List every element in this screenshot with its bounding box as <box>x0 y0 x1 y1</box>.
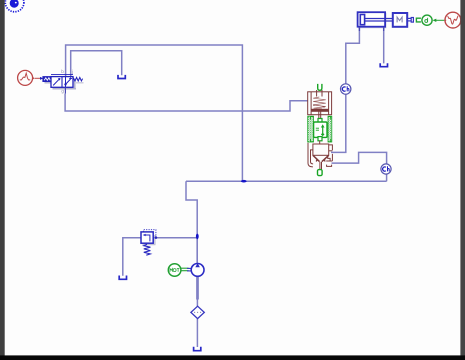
wire net7: relief valve left to tank T2 <box>123 238 141 276</box>
wire net8: pump outlet column stub <box>196 238 198 263</box>
window border bottom <box>0 355 465 360</box>
solenoid <box>43 77 51 82</box>
sensor arrow line <box>436 19 444 21</box>
window border left <box>0 0 5 356</box>
junction node at pump column <box>196 234 199 240</box>
junction node at supply line <box>241 180 247 183</box>
valve body <box>51 77 73 88</box>
top green port <box>318 84 322 90</box>
mass load M1 <box>393 13 414 27</box>
spool hatched walls (green) <box>308 116 314 142</box>
app icon (top-left) <box>5 0 24 12</box>
wire net2: valve port j to tank T3 <box>71 51 122 77</box>
wire net5: cylinder head-side port to tank T4 <box>383 27 385 63</box>
electric motor MOT1 (green) <box>168 264 191 277</box>
relief spring <box>144 244 151 255</box>
pump P1 <box>191 263 204 299</box>
wire net1: jog down to pump <box>186 181 197 263</box>
motor shaft <box>181 267 189 269</box>
piston <box>312 109 329 111</box>
wire net6: Ch2 down to supply line <box>386 174 388 181</box>
wire net3: valve port g pilot line to HCD <box>65 94 308 111</box>
tank T2 below relief valve <box>119 276 126 280</box>
svg-text:j: j <box>71 69 73 74</box>
valve right cell paths <box>65 77 67 87</box>
wire net1: long supply horizontal <box>186 180 387 182</box>
scope X1 (red) <box>444 12 460 28</box>
filter F1 (diamond) <box>191 306 204 318</box>
bottom green port <box>318 170 323 176</box>
control block (green) <box>318 119 322 123</box>
HCD counterbalance assembly U1 <box>308 84 333 176</box>
block arrow <box>322 127 324 134</box>
wire net4: cylinder rod-side port to chamber Ch1 <box>346 27 360 84</box>
window border right <box>460 0 465 356</box>
svg-text:b: b <box>61 69 64 74</box>
hydraulic cylinder A1 <box>358 12 393 31</box>
tank T3 on valve return <box>118 75 125 79</box>
wire net9: filter down to tank T1 <box>196 319 198 347</box>
poppet arrows <box>316 159 318 162</box>
wire net6: HCD lower right port to chamber Ch2 <box>332 152 387 163</box>
wire net1: valve port b up and right to junction column <box>66 45 243 181</box>
cylinder port stubs <box>358 27 360 31</box>
chamber Ch1 <box>341 84 351 94</box>
valve spring <box>73 77 83 81</box>
relief valve RV1 <box>141 230 157 256</box>
tank T4 on cylinder head side <box>380 63 387 66</box>
wire net4: Ch1 down to HCD upper right port <box>331 94 346 152</box>
directional valve V1 <box>43 69 84 94</box>
valve port g stub <box>64 87 66 93</box>
chamber Ch2 <box>381 164 391 174</box>
mass right connector <box>407 17 411 19</box>
pump inlet double line <box>196 277 198 300</box>
wire net7: relief valve right to pump column <box>153 237 197 239</box>
signal arrowhead into solenoid <box>40 77 43 80</box>
poppet assembly (maroon) <box>308 141 332 170</box>
valve left cell arrow <box>53 79 59 85</box>
spring cage outer box (maroon) <box>308 90 332 119</box>
relief pilot dashed <box>144 230 156 236</box>
wire net9: pump inlet down to filter <box>196 276 198 306</box>
spring <box>313 97 326 109</box>
tank T1 below filter <box>194 347 201 351</box>
spool land marks (green) <box>311 117 331 142</box>
valve shadow <box>53 79 77 89</box>
svg-text:g: g <box>61 89 64 94</box>
displacement sensor D1 (green) <box>416 15 432 25</box>
signal source S1 (red) <box>18 70 41 85</box>
